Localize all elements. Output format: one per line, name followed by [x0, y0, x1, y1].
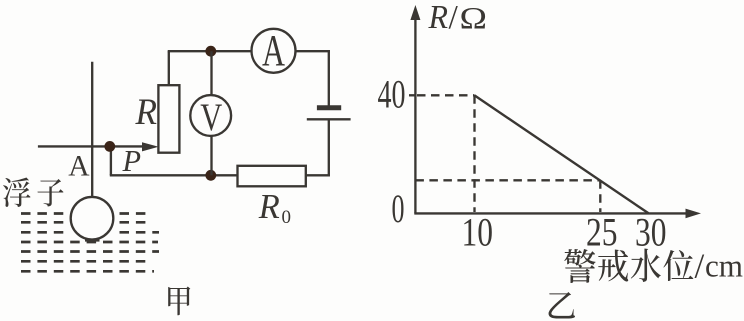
caption 乙 (figure B) — [549, 292, 576, 318]
svg-text:Ω: Ω — [460, 0, 488, 35]
dashed line R=10 level — [415, 179, 600, 181]
ammeter A (circle) — [252, 29, 296, 73]
top rail: ammeter to right corner — [296, 50, 330, 52]
battery negative plate (short thick) — [317, 105, 341, 110]
bottom wire right segment to R0 — [306, 174, 330, 176]
voltmeter V (circle) — [190, 95, 231, 136]
R vs water level line — [475, 95, 649, 213]
lever arm wire to slider — [38, 145, 144, 147]
x-axis title 位 — [663, 250, 693, 281]
top rail: left segment to ammeter — [168, 50, 252, 52]
bottom wire left segment — [110, 174, 238, 176]
voltmeter branch wire (top) — [210, 51, 212, 95]
svg-text:10: 10 — [462, 210, 494, 255]
resistor R0 (box) — [238, 166, 306, 187]
slider arrow tip at rheostat R — [142, 142, 159, 151]
dashed line R=40 — [417, 94, 475, 96]
label 浮 (float) — [3, 177, 30, 206]
x-axis title 戒 — [598, 249, 628, 281]
x-axis title 警 — [564, 249, 595, 283]
x-axis title 水 — [631, 249, 661, 282]
svg-text:/: / — [695, 247, 705, 286]
svg-text:25: 25 — [586, 210, 618, 255]
right wire down to battery — [328, 50, 330, 105]
svg-text:R: R — [258, 187, 280, 226]
top junction dot (node to voltmeter) — [205, 46, 216, 57]
junction dot P (on lever) — [104, 141, 115, 152]
svg-text:30: 30 — [635, 210, 667, 255]
svg-text:0: 0 — [282, 207, 292, 228]
water surface dashed lines — [21, 214, 159, 272]
tick at R=40 — [409, 94, 415, 96]
svg-text:/: / — [449, 0, 459, 36]
caption 甲 (figure A) — [168, 286, 190, 315]
dashed vertical at x=10 — [473, 95, 475, 212]
svg-text:A: A — [262, 25, 285, 75]
battery positive plate (long thin) — [307, 118, 351, 120]
float (circle) — [71, 197, 114, 240]
rheostat R (vertical resistor box) — [158, 85, 179, 153]
water mark at float bottom — [85, 239, 100, 242]
svg-text:40: 40 — [378, 72, 406, 117]
svg-text:A: A — [68, 151, 90, 183]
dashed vertical at x=25 — [599, 180, 601, 212]
svg-text:R: R — [135, 92, 158, 133]
svg-text:V: V — [200, 95, 222, 139]
wire battery to bottom right corner — [328, 120, 330, 176]
voltmeter branch wire (bottom) — [210, 136, 212, 175]
wire from slider junction down — [110, 146, 112, 175]
svg-text:cm: cm — [705, 248, 743, 284]
graph x-axis — [414, 212, 687, 214]
svg-text:P: P — [122, 143, 142, 178]
label 子 (float) — [37, 179, 63, 206]
junction dot (bottom node) — [205, 170, 216, 181]
graph y-axis — [414, 18, 416, 213]
wire: R top to top rail — [168, 51, 170, 85]
float rod (vertical) — [91, 62, 93, 199]
svg-text:R: R — [428, 0, 448, 36]
svg-text:0: 0 — [392, 186, 405, 231]
